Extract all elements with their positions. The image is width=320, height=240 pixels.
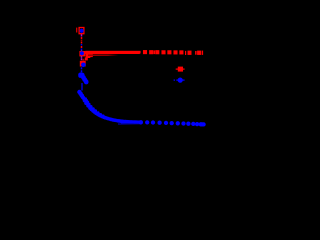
red dense plateau band (85, 51, 141, 54)
vertical dashed critical line (81, 34, 83, 72)
blue plateau reinforcement (121, 121, 141, 123)
red large data squares near Tc (82, 53, 92, 60)
blue cluster head circles (77, 90, 85, 100)
low critical marker (red square + blue circle) (80, 61, 86, 67)
blue vertical connector line (81, 83, 82, 91)
legend red entry (176, 67, 185, 72)
legend blue entry (174, 78, 185, 83)
blue dense decay curve (81, 96, 143, 124)
top critical-point marker (76, 28, 84, 34)
blue large circles near Tc (78, 73, 88, 85)
dark blue tail line (118, 123, 141, 124)
mid critical marker (red square + blue circle) (79, 51, 85, 56)
dark red tail line (88, 54, 119, 56)
red discrete squares (143, 50, 203, 55)
blue discrete circles (139, 120, 206, 126)
